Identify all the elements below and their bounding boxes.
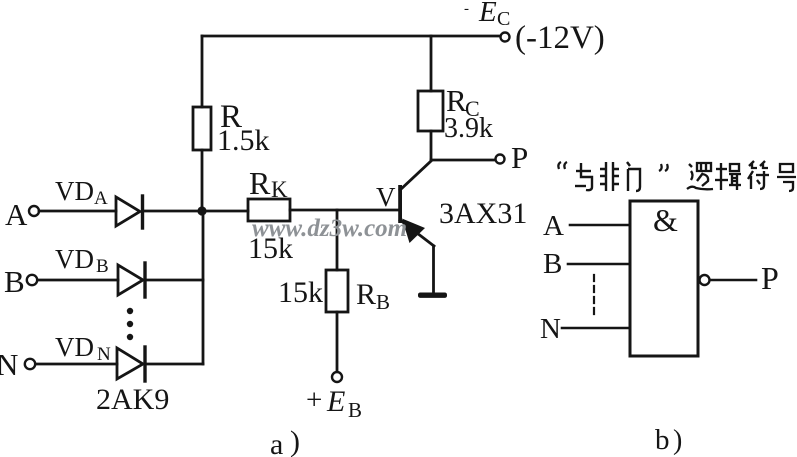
hanzi fu [748, 161, 769, 189]
wire RC branch upper [430, 36, 433, 91]
wire RB branch upper [336, 210, 339, 270]
svg-text:15k: 15k [278, 276, 323, 309]
wire output P [431, 159, 495, 162]
svg-text:VD: VD [55, 332, 94, 362]
terminal P [496, 155, 505, 164]
gate input A wire [570, 224, 630, 227]
svg-text:A: A [94, 188, 108, 209]
svg-text:B: B [348, 398, 362, 422]
svg-text:P: P [511, 140, 528, 175]
wire RK to base [290, 209, 398, 212]
svg-text:&: & [653, 202, 678, 238]
hanzi luo [687, 163, 713, 189]
svg-text:3AX31: 3AX31 [439, 197, 527, 230]
svg-text:N: N [97, 344, 111, 365]
svg-text:VD: VD [55, 244, 94, 274]
svg-text:3.9k: 3.9k [444, 113, 493, 144]
wire diode B to bus [147, 279, 203, 282]
emitter arrow PNP [402, 219, 425, 244]
svg-text:R: R [356, 278, 376, 311]
wire diode A to RK [144, 210, 248, 213]
svg-text:): ) [673, 425, 682, 456]
svg-text:(-12V): (-12V) [515, 20, 605, 56]
svg-text:+: + [306, 384, 322, 416]
svg-text:N: N [0, 347, 18, 382]
svg-text:B: B [96, 256, 109, 277]
ground [418, 293, 447, 298]
hanzi hao [777, 164, 796, 191]
resistor R 1.5k [193, 107, 211, 150]
svg-text:E: E [326, 385, 345, 418]
wire RB branch lower [336, 312, 339, 371]
wire R branch upper [201, 36, 204, 107]
terminal input N [25, 359, 35, 369]
wire emitter down [432, 246, 435, 293]
diode VDN [117, 347, 145, 381]
svg-text:N: N [540, 313, 561, 345]
wire diode N to bus [147, 363, 203, 366]
wire top supply rail [202, 35, 500, 38]
svg-text:1.5k: 1.5k [217, 124, 270, 157]
svg-text:VD: VD [55, 176, 94, 206]
hanzi yu [575, 163, 592, 190]
wire R branch lower [201, 150, 204, 211]
resistor RK [248, 199, 290, 221]
svg-text:K: K [271, 177, 288, 202]
svg-text:B: B [543, 248, 562, 280]
svg-text:B: B [4, 264, 25, 299]
wire emitter lead [400, 220, 434, 246]
svg-text:E: E [478, 0, 497, 28]
wire RC to collector corner [430, 131, 433, 160]
ellipsis dots more inputs [127, 308, 133, 340]
resistor RC [418, 91, 443, 131]
svg-text:P: P [761, 260, 779, 296]
gate input B wire [568, 263, 630, 266]
hanzi ji [715, 163, 741, 190]
svg-text:b: b [655, 424, 670, 456]
terminal input B [27, 275, 37, 285]
resistor RB [326, 270, 348, 312]
node input junction [197, 206, 206, 215]
svg-text:B: B [376, 290, 390, 314]
svg-text:2AK9: 2AK9 [96, 383, 169, 416]
diode VDB [118, 263, 145, 297]
svg-text:A: A [5, 197, 28, 232]
wire input B [38, 279, 118, 282]
terminal input A [29, 206, 39, 216]
transistor V base bar [398, 185, 402, 223]
wire input A [39, 210, 116, 213]
svg-text:-: - [464, 1, 469, 17]
title quote open [558, 162, 567, 169]
terminal EB [332, 372, 342, 382]
svg-text:a: a [270, 428, 283, 457]
svg-text:): ) [290, 425, 300, 457]
wire input N [36, 363, 117, 366]
svg-text:C: C [497, 8, 510, 30]
gate input N wire [562, 327, 630, 330]
diode VDA [116, 196, 143, 228]
svg-text:V: V [376, 182, 396, 212]
wire collector lead [400, 161, 431, 190]
gate output bubble [700, 275, 710, 285]
svg-text:www.dz3w.com: www.dz3w.com [252, 215, 407, 242]
hanzi men [627, 162, 640, 191]
svg-text:R: R [249, 165, 271, 201]
gate ellipsis dashed [593, 275, 595, 316]
svg-text:A: A [543, 210, 564, 242]
terminal EC supply [501, 33, 510, 42]
title quote close [659, 164, 668, 171]
wire input bus vertical [202, 211, 205, 364]
hanzi fei [600, 162, 619, 191]
gate output P wire [710, 279, 756, 282]
gate box [630, 201, 698, 356]
